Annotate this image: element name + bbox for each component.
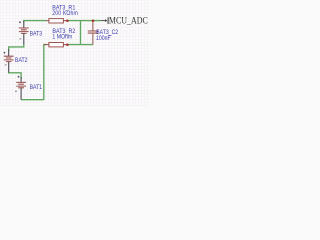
svg-text:BAT3: BAT3 [30,31,43,38]
battery BAT1 [15,76,26,100]
wire top horizontal right of R1 to port [67,20,101,22]
port MCU_ADC symbol [101,17,108,24]
wire top horizontal left of R1 [24,20,47,22]
wire BAT2 bottom jog to BAT1 [9,72,21,78]
battery BAT2 [3,50,13,73]
svg-text:MCU_ADC: MCU_ADC [109,15,148,26]
svg-text:1 MOhm: 1 MOhm [52,34,72,41]
svg-text:200 KOhm: 200 KOhm [52,11,78,18]
wire BAT1 bottom corner [20,98,22,101]
svg-text:BAT2: BAT2 [15,58,28,65]
wire vertical mid (node tap) [80,21,82,45]
wire R2 left corner down [44,45,47,100]
junction node at R2 output [66,43,69,46]
svg-text:100nF: 100nF [96,35,111,42]
resistor R2 [44,43,67,47]
svg-text:BAT1: BAT1 [30,85,43,92]
wire bottom horizontal R2 to C2 [67,44,93,46]
wire BAT3 bottom jog to BAT2 [9,44,24,51]
battery BAT3 [19,21,29,45]
wire BAT3 top corner [23,21,25,22]
wire bottom return [21,99,44,101]
junction node at R1 output [66,19,69,22]
resistor R1 [46,19,67,23]
capacitor C2 [88,21,98,45]
junction node at C2 tap [92,19,95,22]
